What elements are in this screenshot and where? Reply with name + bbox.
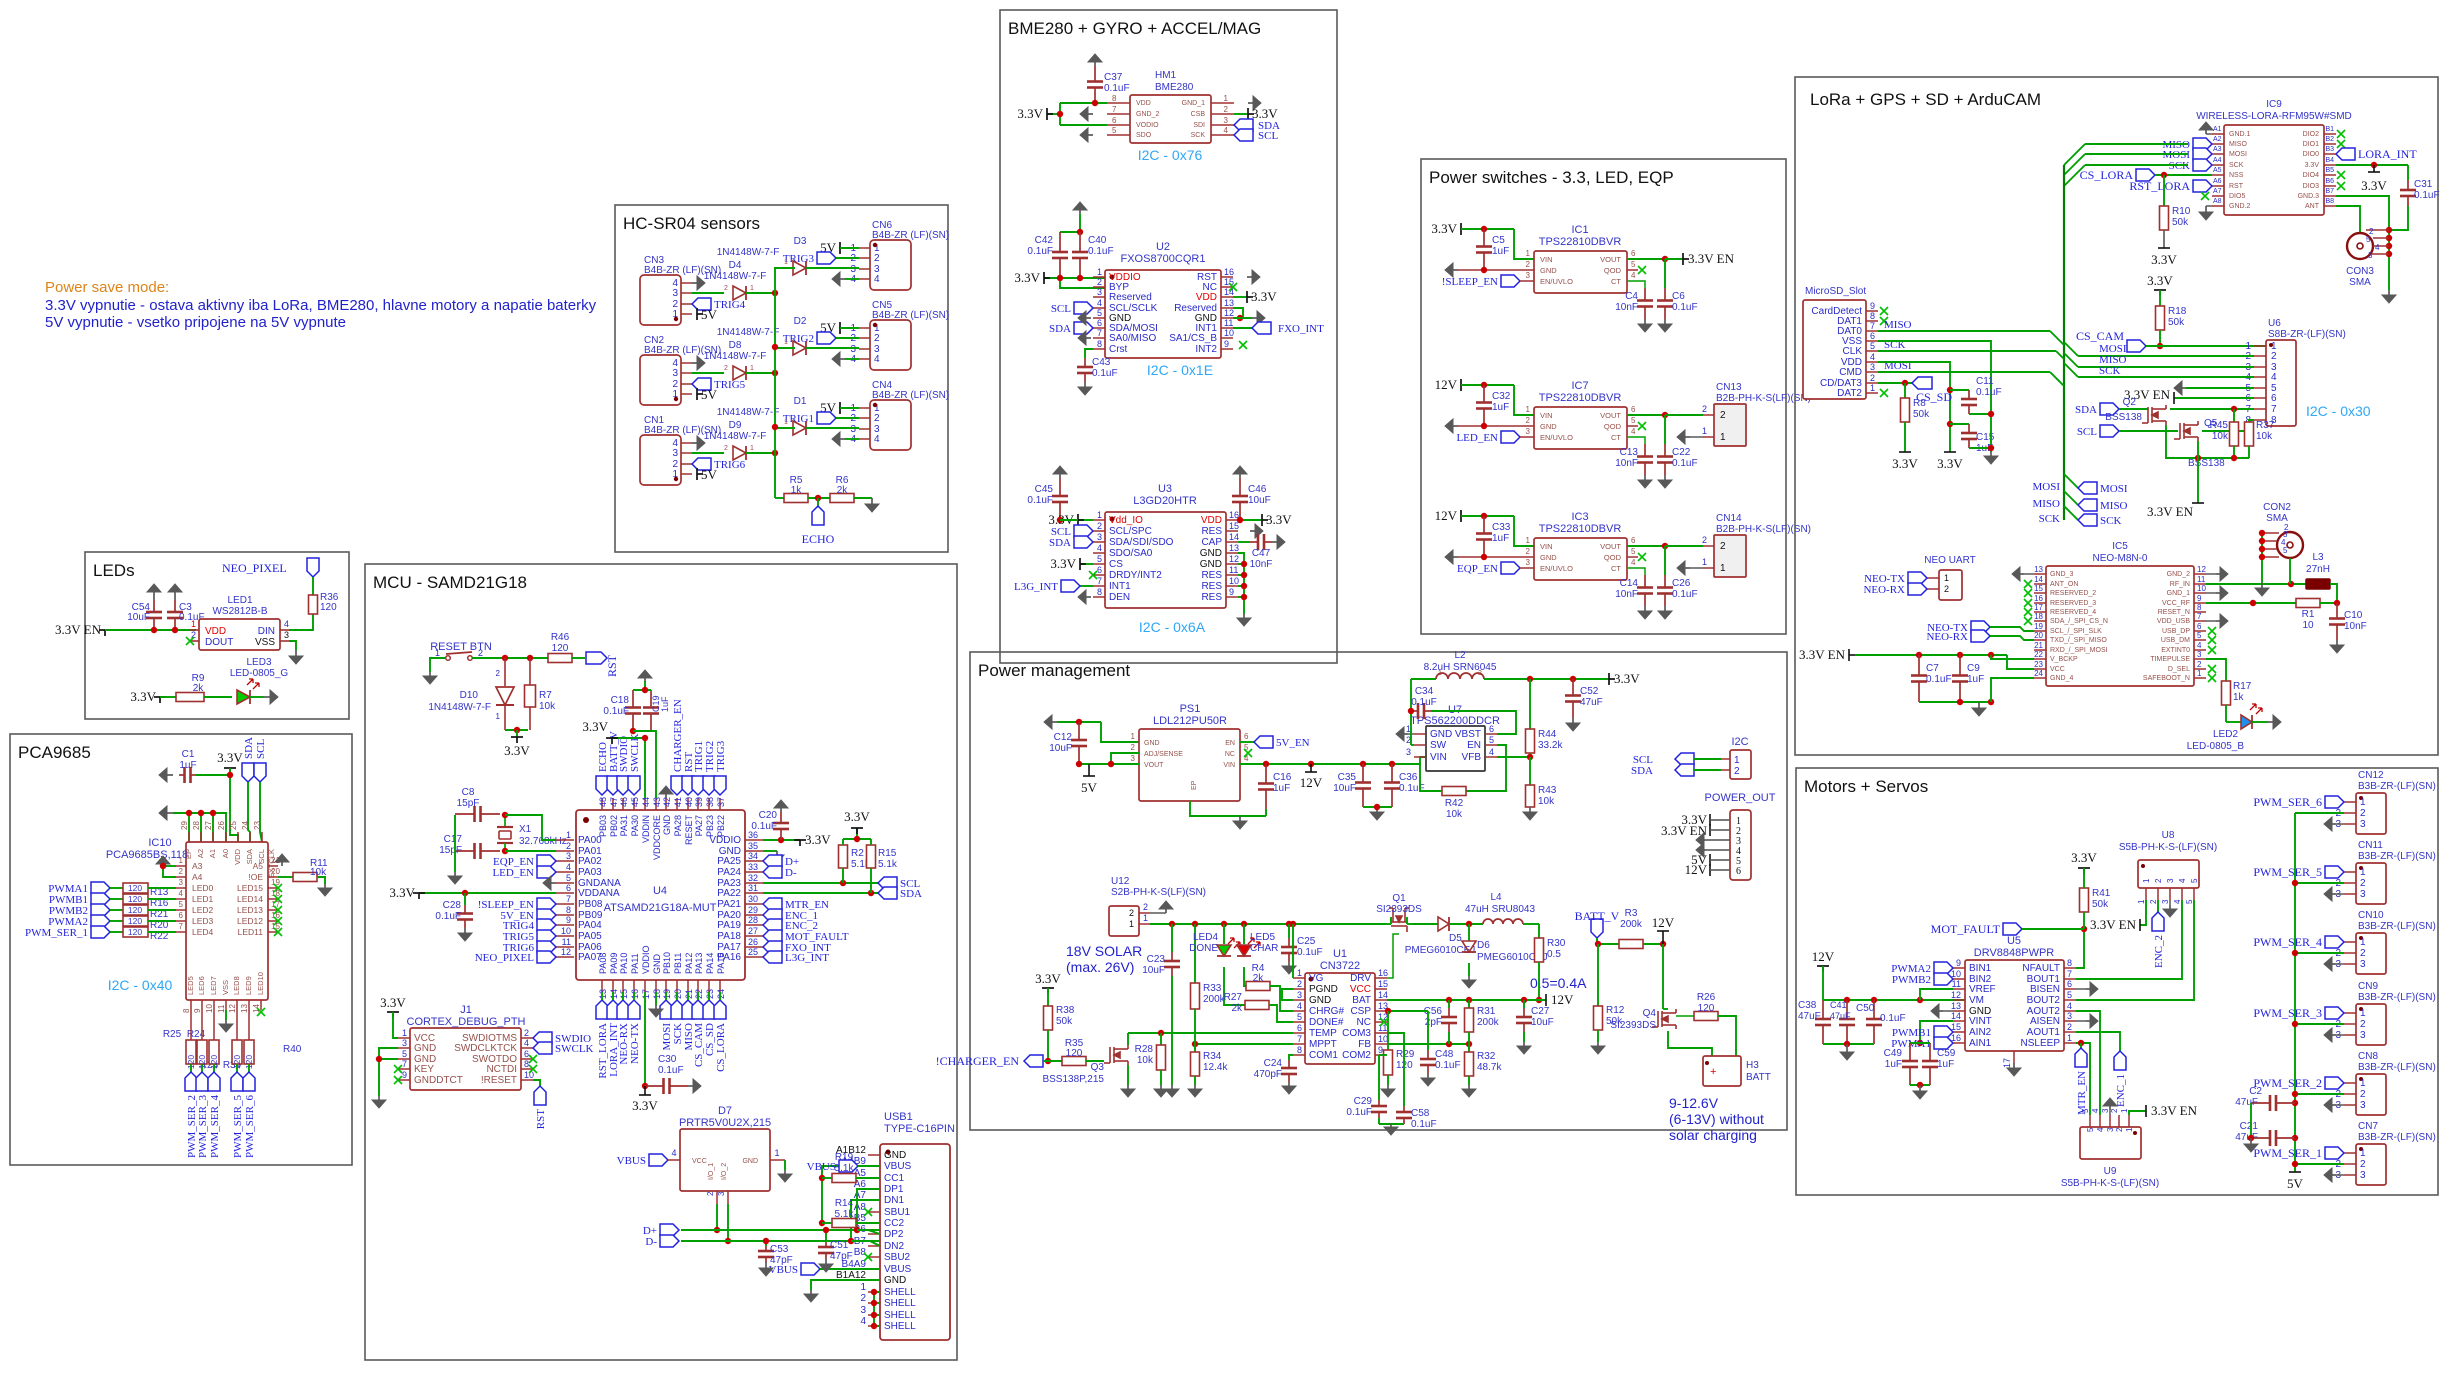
- svg-text:2: 2: [2115, 1127, 2124, 1132]
- wire R9 to LED3: [204, 696, 232, 698]
- pin 2: [2344, 812, 2356, 814]
- hier label SCK: [2078, 514, 2097, 526]
- svg-text:2: 2: [2360, 1159, 2366, 1170]
- svg-text:SCK: SCK: [2229, 162, 2244, 169]
- svg-text:2k: 2k: [1253, 973, 1265, 984]
- wire GND pins to gnd: [379, 1048, 398, 1096]
- wire VDDIO pin17 down to C30: [644, 992, 646, 1086]
- svg-text:B4: B4: [2325, 157, 2334, 164]
- wire R26 to battery: [1718, 1016, 1736, 1056]
- svg-text:5V_EN: 5V_EN: [1276, 737, 1310, 749]
- pin 7 INT1: [1093, 585, 1105, 587]
- svg-text:RES: RES: [1201, 526, 1222, 537]
- svg-text:Q3: Q3: [1091, 1062, 1105, 1073]
- svg-text:1uF: 1uF: [179, 760, 196, 771]
- resistor R31: [1468, 1000, 1470, 1008]
- pin 9 RES: [1226, 596, 1238, 598]
- svg-text:C51: C51: [830, 1240, 849, 1251]
- svg-text:A3: A3: [192, 861, 203, 871]
- pin 15 PA10: [622, 980, 624, 992]
- svg-text:24: 24: [2034, 669, 2043, 678]
- crystal X1: [504, 815, 506, 827]
- wire pin1-2 gnd: [163, 866, 176, 877]
- svg-text:15pF: 15pF: [439, 845, 462, 856]
- svg-text:MISO: MISO: [2100, 500, 2128, 512]
- diode D9 1N4148W-7-F: [733, 446, 746, 460]
- power 3.3V VDD: [1233, 296, 1247, 298]
- no-connect INT2: [1239, 341, 1247, 349]
- svg-text:TPS22810DBVR: TPS22810DBVR: [1539, 392, 1622, 404]
- svg-text:PB03: PB03: [598, 815, 608, 837]
- svg-text:DRV: DRV: [1350, 973, 1371, 984]
- ground: [1288, 1082, 1290, 1086]
- svg-text:3: 3: [2360, 889, 2366, 900]
- svg-text:1: 1: [2360, 937, 2366, 948]
- pin 47 PB02: [612, 798, 614, 810]
- pin 1: [2344, 1152, 2356, 1154]
- svg-text:IC9: IC9: [2266, 99, 2282, 110]
- ground: [1288, 962, 1290, 966]
- svg-text:2: 2: [2360, 1019, 2366, 1030]
- capacitor C13: [1644, 444, 1646, 457]
- junction: [1662, 256, 1668, 262]
- svg-text:NEO_PIXEL: NEO_PIXEL: [222, 561, 287, 575]
- pin 3 Reserved: [1093, 296, 1105, 298]
- pin 4 SDO/SA0: [1093, 552, 1105, 554]
- svg-text:1: 1: [1224, 94, 1229, 103]
- hier label SCL: [878, 877, 897, 889]
- svg-text:29: 29: [180, 821, 189, 830]
- resistor R26: [1676, 1015, 1694, 1017]
- pin 5: [2089, 1115, 2091, 1127]
- junction: [1237, 315, 1243, 321]
- svg-text:SDO/SA0: SDO/SA0: [1109, 548, 1153, 559]
- svg-text:PA27: PA27: [694, 815, 704, 836]
- ic U3 L3GD20HTR: [1105, 512, 1226, 608]
- capacitor C25: [1288, 924, 1290, 938]
- svg-text:ATSAMD21G18A-MUT: ATSAMD21G18A-MUT: [604, 902, 717, 914]
- svg-text:GND_2: GND_2: [2167, 571, 2190, 578]
- pin 6 LED3: [176, 920, 186, 922]
- svg-text:5: 5: [1631, 260, 1636, 269]
- svg-text:12: 12: [561, 947, 571, 957]
- svg-text:2: 2: [706, 1191, 715, 1196]
- svg-text:CC2: CC2: [884, 1218, 904, 1229]
- svg-text:LED2: LED2: [192, 905, 214, 915]
- svg-text:VOUT: VOUT: [1600, 411, 1621, 420]
- pin 2 PGND: [1293, 988, 1305, 990]
- diode D 1N4148W-7-F: [793, 341, 806, 355]
- pin 3 VIN: [1414, 756, 1426, 758]
- resistor R34: [1191, 1052, 1200, 1076]
- svg-text:4: 4: [874, 354, 880, 365]
- ground: [1059, 474, 1061, 478]
- capacitor C43: [1085, 349, 1093, 358]
- svg-text:3: 3: [2166, 878, 2175, 883]
- ground: [688, 1085, 693, 1087]
- wire CON2 shield: [2261, 533, 2263, 583]
- svg-text:5.1k: 5.1k: [835, 1163, 855, 1174]
- svg-text:U12: U12: [1111, 876, 1130, 887]
- ground pin3: [2332, 893, 2336, 895]
- junction: [1917, 1040, 1923, 1046]
- svg-text:I/O_1: I/O_1: [708, 1163, 715, 1180]
- hier label PWMA1: [91, 882, 110, 894]
- power 5V: [696, 308, 698, 320]
- svg-text:6: 6: [179, 911, 184, 920]
- resistor R23: [213, 1010, 215, 1040]
- hier label PWM_SER_1: [2325, 1147, 2344, 1159]
- capacitor C17: [455, 850, 475, 852]
- svg-text:LED_EN: LED_EN: [492, 867, 534, 879]
- svg-text:8: 8: [2067, 958, 2072, 968]
- svg-text:1uF: 1uF: [1937, 1059, 1954, 1070]
- hier label SWCLK: [533, 1042, 552, 1054]
- svg-text:IC3: IC3: [1571, 511, 1588, 523]
- ground pin3: [2109, 1110, 2111, 1115]
- svg-text:RESET_N: RESET_N: [2158, 609, 2190, 616]
- pin 3: [1718, 839, 1730, 841]
- pin 3: [2344, 963, 2356, 965]
- pin 16 VDD: [1226, 519, 1238, 521]
- svg-text:16: 16: [2034, 594, 2043, 603]
- svg-text:33: 33: [748, 862, 758, 872]
- pin 19 SCL_/_SPI_SLK: [2034, 630, 2046, 632]
- svg-text:1: 1: [784, 259, 788, 266]
- pin 2 CD/DAT3: [1866, 382, 1878, 384]
- svg-text:GND.3: GND.3: [2298, 193, 2320, 200]
- svg-text:GND: GND: [1540, 266, 1557, 275]
- svg-text:8: 8: [1112, 94, 1117, 103]
- wire pin3 to diode: [692, 292, 724, 294]
- svg-text:C21: C21: [2240, 1121, 2259, 1132]
- wire C56/R31 to FB: [1448, 1032, 1450, 1044]
- junction: [1057, 517, 1063, 523]
- svg-text:TRIG6: TRIG6: [714, 459, 746, 471]
- capacitor C1: [179, 774, 185, 776]
- svg-text:3: 3: [1526, 558, 1531, 567]
- ground: [692, 442, 697, 444]
- pin 9 LED6: [201, 1000, 203, 1010]
- svg-text:SCL: SCL: [2077, 426, 2097, 438]
- led LED4 DONE green: [1223, 924, 1225, 944]
- pin 1 DAT2: [1866, 392, 1878, 394]
- wire: [1694, 758, 1721, 760]
- pin 31 PA22: [745, 892, 763, 894]
- pin B8 SBU2: [868, 1256, 880, 1258]
- hier label RST: [586, 652, 607, 664]
- wire: [633, 992, 635, 1000]
- wire BOUT1 to U8: [2076, 900, 2182, 979]
- pin 15 LED11: [268, 931, 278, 933]
- junction: [1527, 754, 1533, 760]
- svg-text:CS_LORA: CS_LORA: [715, 1023, 727, 1072]
- hier label RST_LORA: [2193, 180, 2212, 192]
- svg-text:NEO-RX: NEO-RX: [1863, 584, 1905, 596]
- pin 8 PB09: [556, 914, 574, 916]
- svg-text:D7: D7: [718, 1105, 732, 1117]
- pin 5: [2254, 387, 2266, 389]
- svg-text:LED8: LED8: [232, 976, 241, 995]
- pin 5 SDO: [1107, 134, 1130, 136]
- svg-text:NEO-M8N-0: NEO-M8N-0: [2092, 553, 2147, 564]
- svg-text:B3B-ZR-(LF)(SN): B3B-ZR-(LF)(SN): [2358, 1062, 2436, 1073]
- wire SDA line: [2119, 408, 2148, 410]
- svg-text:1uF: 1uF: [660, 696, 670, 712]
- svg-text:2: 2: [2360, 948, 2366, 959]
- wire power to VIN: [1461, 384, 1484, 386]
- svg-text:CN7: CN7: [2358, 1121, 2378, 1132]
- pin 28: [200, 832, 202, 842]
- svg-text:SWCLK: SWCLK: [555, 1043, 594, 1055]
- capacitor C58: [1387, 1033, 1404, 1106]
- svg-text:0.1uF: 0.1uF: [658, 1065, 684, 1076]
- svg-text:SA1/CS_B: SA1/CS_B: [1169, 333, 1217, 344]
- svg-text:PWM_SER_6: PWM_SER_6: [244, 1095, 256, 1158]
- svg-text:R43: R43: [1538, 785, 1557, 796]
- wire MISO to pin3: [2078, 366, 2254, 368]
- svg-text:9: 9: [2197, 594, 2202, 603]
- svg-text:DIO5: DIO5: [2229, 193, 2245, 200]
- wire Reserved13 to GND12: [1233, 308, 1243, 318]
- wire VDD to 3.3V: [1878, 362, 1950, 452]
- wire bus to diode: [775, 427, 795, 429]
- svg-text:2: 2: [724, 285, 728, 292]
- pin 14 PA09: [612, 980, 614, 992]
- svg-text:PB02: PB02: [609, 815, 619, 837]
- ground: [1453, 556, 1458, 558]
- pin 5 USB_DM: [2194, 639, 2206, 641]
- svg-text:1: 1: [191, 619, 196, 629]
- svg-text:10uF: 10uF: [1248, 495, 1271, 506]
- pin 3: [2344, 1034, 2356, 1036]
- svg-text:CORTEX_DEBUG_PTH: CORTEX_DEBUG_PTH: [407, 1016, 526, 1028]
- svg-text:3: 3: [402, 1038, 407, 1048]
- svg-text:A4: A4: [2213, 157, 2222, 164]
- wire spi tap MISO: [2064, 491, 2078, 505]
- pin A5 CC1: [868, 1177, 880, 1179]
- pin 8 VDD: [1107, 102, 1130, 104]
- svg-text:VDD: VDD: [1201, 515, 1222, 526]
- svg-text:32: 32: [748, 873, 758, 883]
- svg-text:SCK: SCK: [2169, 160, 2190, 172]
- pin 3: [2344, 823, 2356, 825]
- wire caps bottom: [1910, 1084, 1930, 1086]
- svg-text:C18: C18: [611, 695, 630, 706]
- svg-text:23: 23: [2034, 660, 2043, 669]
- pin 44 VDDIN: [644, 798, 646, 810]
- power 3.3V: [644, 1086, 646, 1095]
- svg-text:10: 10: [524, 1070, 534, 1080]
- junction: [772, 450, 778, 456]
- svg-text:COM1: COM1: [1309, 1050, 1338, 1061]
- no-connect KEY: [394, 1065, 402, 1073]
- svg-text:L3G_INT: L3G_INT: [785, 952, 829, 964]
- pin 4 VFB: [1485, 756, 1497, 758]
- ground RST: [1247, 276, 1252, 278]
- resistor R25: [190, 1010, 192, 1040]
- pin 12 GND: [1226, 563, 1238, 565]
- svg-text:12V: 12V: [1685, 862, 1708, 877]
- wire rail to 3.3V EN: [2197, 458, 2199, 503]
- svg-text:0.1uF: 0.1uF: [2414, 190, 2440, 201]
- svg-text:IC1: IC1: [1571, 224, 1588, 236]
- svg-text:22: 22: [2034, 650, 2043, 659]
- junction: [1092, 100, 1098, 106]
- svg-text:LED7: LED7: [209, 976, 218, 995]
- diode D8 1N4148W-7-F: [733, 366, 746, 380]
- resistor R7: [529, 658, 531, 685]
- wire: [213, 1064, 215, 1072]
- pin 13 GND: [1953, 1010, 1965, 1012]
- pin 4 EXTINT0: [2194, 649, 2206, 651]
- svg-text:12V: 12V: [1652, 915, 1675, 930]
- svg-text:GND: GND: [884, 1150, 906, 1161]
- pin 3 TIMEPULSE: [2194, 658, 2206, 660]
- wire pin1 to 3.3V EN: [2140, 900, 2146, 925]
- pin 5: [2193, 888, 2195, 900]
- wire bus to diode: [775, 347, 795, 349]
- pin 1 SAFEBOOT_N: [2194, 677, 2206, 679]
- junction: [1916, 652, 1922, 658]
- resistor R15: [867, 845, 876, 868]
- junction: [462, 890, 468, 896]
- svg-text:2: 2: [2369, 227, 2374, 236]
- ground GND_1: [1248, 102, 1253, 104]
- pin 2 AOUT1: [2064, 1031, 2076, 1033]
- svg-text:C42: C42: [1035, 235, 1054, 246]
- svg-text:1: 1: [1526, 249, 1531, 258]
- svg-text:PWM_SER_5: PWM_SER_5: [2253, 865, 2322, 879]
- hier label SDA: [1234, 119, 1253, 131]
- wire pin3 to diode: [692, 452, 724, 454]
- svg-text:18V SOLAR: 18V SOLAR: [1066, 943, 1142, 959]
- hier label TRIG2: [817, 332, 836, 344]
- pin 8 NFAULT: [2064, 967, 2076, 969]
- wire: [697, 992, 699, 1000]
- svg-text:U2: U2: [1156, 241, 1170, 253]
- wire VG up to bus: [1292, 924, 1294, 978]
- capacitor C37: [1094, 66, 1096, 82]
- pin 11 RES: [1226, 574, 1238, 576]
- wire 3.3V EN to LED1 VDD: [105, 629, 196, 631]
- hier label PWM_SER_3: [196, 1072, 208, 1091]
- svg-text:5: 5: [2185, 899, 2194, 904]
- wire VINT to caps: [1920, 1021, 1953, 1043]
- junction: [714, 1227, 720, 1233]
- svg-text:VDD: VDD: [1196, 292, 1217, 303]
- svg-text:1N4148W-7-F: 1N4148W-7-F: [704, 351, 767, 362]
- wire reset btn left to gnd: [430, 658, 446, 672]
- svg-text:5: 5: [1097, 308, 1102, 318]
- power 3.3V: [606, 737, 618, 739]
- svg-text:D1: D1: [794, 396, 807, 407]
- svg-text:LED-0805_B: LED-0805_B: [2187, 741, 2245, 752]
- svg-text:C29: C29: [1354, 1096, 1373, 1107]
- svg-text:3.3V: 3.3V: [2147, 273, 2173, 288]
- wire: [708, 992, 710, 1000]
- ground: [1978, 702, 1980, 708]
- svg-text:3: 3: [2368, 251, 2373, 260]
- svg-text:TPS22810DBVR: TPS22810DBVR: [1539, 523, 1622, 535]
- svg-text:R37: R37: [2256, 420, 2275, 431]
- pin 12 PA07: [556, 956, 574, 958]
- pin 45 PA30: [633, 798, 635, 810]
- svg-text:15: 15: [619, 989, 629, 999]
- svg-text:TPS22810DBVR: TPS22810DBVR: [1539, 236, 1622, 248]
- svg-text:VG: VG: [1309, 973, 1324, 984]
- svg-text:2: 2: [2149, 899, 2158, 904]
- pin 10 !RESET: [521, 1079, 533, 1081]
- junction: [1108, 761, 1114, 767]
- pin 1 GND: [1414, 733, 1426, 735]
- ground: [840, 278, 845, 280]
- wire C34 to VBST: [1431, 711, 1516, 734]
- power 5V: [839, 242, 841, 254]
- capacitor C19: [650, 690, 652, 708]
- power 3.3V: [1709, 814, 1711, 826]
- svg-text:LED12: LED12: [237, 916, 263, 926]
- svg-text:DAT2: DAT2: [1837, 388, 1862, 399]
- led LED1 WS2812B-B: [199, 619, 280, 650]
- svg-text:120: 120: [128, 927, 142, 937]
- power 3.3V: [224, 767, 236, 769]
- power 12V: [1460, 510, 1462, 522]
- wire D7 pin3 to D- line: [727, 1204, 729, 1241]
- wire TIMEPULSE to R17: [2206, 659, 2226, 681]
- svg-text:0.1uF: 0.1uF: [1104, 83, 1130, 94]
- wire caps left: [2250, 1103, 2252, 1138]
- ground: [1127, 1085, 1129, 1089]
- ground: [1194, 1076, 1196, 1085]
- svg-text:(max. 26V): (max. 26V): [1066, 959, 1134, 975]
- power 3.3V: [413, 892, 425, 894]
- ground: [692, 282, 697, 284]
- power 12V: [1709, 864, 1711, 876]
- pin 36 VDDIO: [745, 839, 763, 841]
- wire CS_CAM to U6 pin1: [2146, 345, 2266, 347]
- svg-text:LED5: LED5: [186, 976, 195, 995]
- junction: [2078, 1040, 2084, 1046]
- svg-text:EP: EP: [1191, 780, 1198, 790]
- svg-text:COM3: COM3: [1342, 1028, 1371, 1039]
- svg-text:B2B-PH-K-S(LF)(SN): B2B-PH-K-S(LF)(SN): [1716, 393, 1811, 404]
- junction: [160, 863, 166, 869]
- svg-text:C35: C35: [1338, 772, 1357, 783]
- ground GND.1: [2205, 130, 2207, 134]
- svg-text:5: 5: [1631, 416, 1636, 425]
- svg-text:5: 5: [1112, 126, 1117, 135]
- pin 22 V_BCKP: [2034, 658, 2046, 660]
- svg-text:VOUT: VOUT: [1600, 542, 1621, 551]
- svg-text:20: 20: [271, 867, 280, 876]
- hier label 5V_EN: [537, 909, 556, 921]
- svg-text:S5B-PH-K-S-(LF)(SN): S5B-PH-K-S-(LF)(SN): [2061, 1178, 2159, 1189]
- svg-text:0.1uF: 0.1uF: [1027, 495, 1053, 506]
- svg-text:13: 13: [1229, 543, 1239, 553]
- svg-text:USB1: USB1: [884, 1111, 913, 1123]
- svg-text:B5: B5: [2325, 167, 2334, 174]
- pin 11 INT1: [1221, 327, 1233, 329]
- svg-text:C8: C8: [462, 787, 475, 798]
- hier label EQP_EN: [537, 855, 556, 867]
- led LED2 LED-0805_B: [2225, 705, 2227, 722]
- ground: [1990, 452, 1992, 456]
- connector CN12 B3B-ZR-(LF)(SN): [2356, 793, 2386, 834]
- resistor R29: [1387, 1011, 1389, 1050]
- svg-text:PA25: PA25: [717, 856, 741, 867]
- svg-text:A5: A5: [2213, 167, 2222, 174]
